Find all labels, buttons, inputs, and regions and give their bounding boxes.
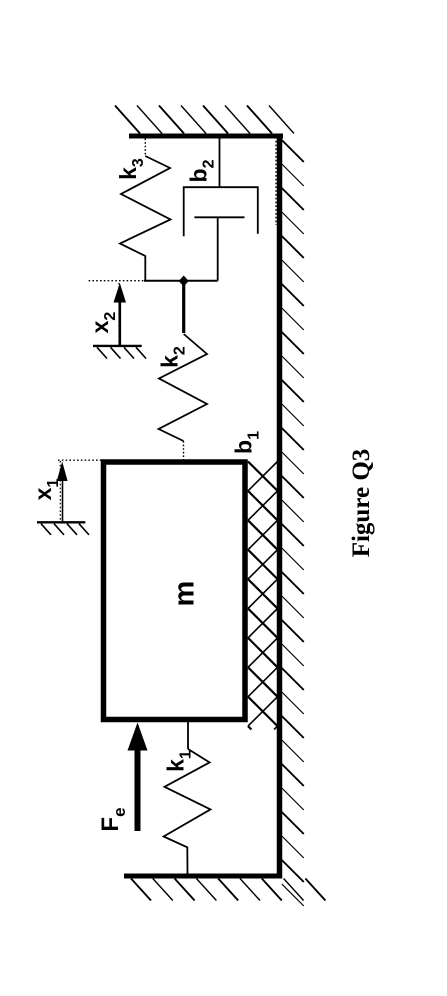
node junction <box>179 276 189 287</box>
wall right (fixed support) <box>277 134 283 879</box>
spring k3 <box>120 139 171 281</box>
wall bottom (fixed support) <box>124 874 282 879</box>
rod from node to spring k2 <box>182 281 185 333</box>
spring k2 <box>159 334 207 460</box>
spring k1 <box>164 720 211 874</box>
label Fe <box>97 807 129 831</box>
wire junction bar at x2 level <box>144 280 218 282</box>
label b1 <box>231 431 263 454</box>
arrow x1 <box>57 461 68 522</box>
ground symbol for x1 <box>37 522 89 535</box>
hatching above top wall <box>115 106 294 134</box>
label x1 <box>30 479 62 501</box>
caption Figure Q3 <box>348 449 375 558</box>
label k1 <box>163 750 195 772</box>
force arrow Fe <box>128 723 148 832</box>
label k2 <box>157 346 189 368</box>
damper b2 <box>184 139 258 281</box>
mass m <box>104 462 246 720</box>
hatching right of right wall <box>282 140 304 906</box>
svg-text:m: m <box>169 581 201 607</box>
friction damper b1 (crosshatch between mass and wall) <box>248 462 278 730</box>
label m <box>169 581 201 607</box>
svg-text:Figure Q3: Figure Q3 <box>348 449 375 558</box>
dotted reference line x2 <box>89 280 144 282</box>
wall top (fixed support) <box>129 134 283 139</box>
dotted line along right wall edge <box>275 137 277 225</box>
hatching below bottom wall <box>131 879 325 901</box>
dotted reference line x1 <box>58 459 103 461</box>
label x2 <box>87 312 119 334</box>
arrow x2 <box>114 283 127 346</box>
ground symbol for x2 <box>93 346 146 359</box>
label k3 <box>115 158 147 180</box>
label b2 <box>186 159 218 182</box>
